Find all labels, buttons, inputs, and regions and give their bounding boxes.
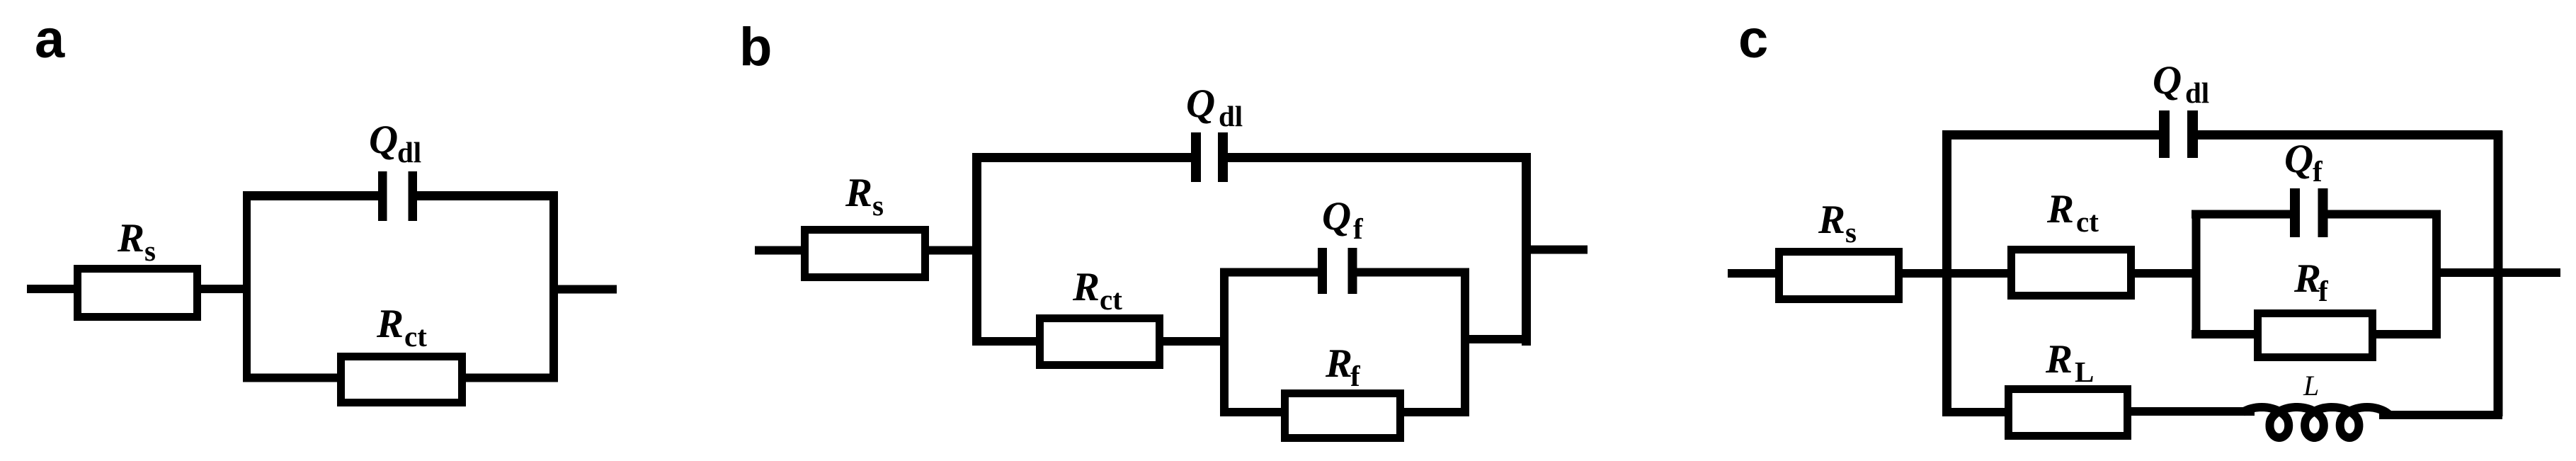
label R_s (panel a): [117, 216, 156, 267]
svg-text:ct: ct: [2076, 205, 2099, 238]
svg-text:ct: ct: [1100, 283, 1122, 316]
resistor R_s (panel a): [78, 269, 198, 317]
label R_f (panel b): [1325, 341, 1361, 392]
capacitor Q_f (panel b): [1318, 248, 1357, 294]
wire bottom branch left (panel a): [243, 374, 341, 382]
svg-text:b: b: [739, 17, 772, 77]
wire R_s to node (panel a): [197, 285, 251, 293]
node inner right vertical (panel c): [2432, 210, 2441, 339]
node outer right vertical (panel c): [2494, 131, 2503, 417]
label R_ct (panel c): [2046, 187, 2099, 238]
svg-text:s: s: [872, 189, 884, 222]
svg-text:dl: dl: [1219, 100, 1243, 132]
wire R_ct to inner node (panel b): [1159, 337, 1229, 346]
wire inner top right (panel b): [1357, 268, 1469, 277]
svg-text:R: R: [2046, 187, 2074, 232]
resistor R_s (panel c): [1779, 252, 1899, 300]
wire inner bottom left (panel b): [1220, 408, 1285, 416]
wire R_ct to inner node (panel c): [2131, 269, 2200, 278]
svg-text:ct: ct: [404, 320, 427, 353]
node left vertical (panel a): [243, 192, 251, 382]
svg-text:R: R: [2293, 256, 2321, 301]
svg-text:L: L: [2303, 370, 2319, 402]
wire top branch right (panel c): [2198, 130, 2502, 140]
svg-text:s: s: [144, 234, 156, 267]
wire right lead panel a: [549, 285, 617, 294]
resistor R_ct (panel b): [1040, 319, 1160, 365]
capacitor Q_dl (panel a): [378, 171, 417, 221]
wire R_s through node to R_ct (panel c): [1898, 269, 2012, 278]
svg-text:f: f: [2318, 275, 2329, 307]
svg-text:Q: Q: [1186, 81, 1215, 126]
svg-text:R: R: [117, 216, 144, 261]
wire inner bottom left (panel c): [2192, 330, 2258, 338]
label Q_f (panel b): [1322, 194, 1364, 245]
svg-text:L: L: [2075, 355, 2094, 388]
wire left lead panel b: [755, 246, 805, 255]
resistor R_L (panel c): [2009, 389, 2128, 436]
svg-text:R: R: [376, 302, 404, 346]
svg-text:Q: Q: [1322, 194, 1351, 239]
node outer left vertical (panel b): [972, 154, 981, 346]
capacitor Q_dl (panel b): [1191, 132, 1228, 182]
resistor R_f (panel c): [2258, 314, 2373, 358]
inductor L (panel c): [2242, 407, 2390, 438]
node outer right vertical (panel b): [1522, 154, 1531, 346]
wire R_s to node (panel b): [925, 246, 981, 255]
wire top branch right (panel b): [1228, 153, 1531, 162]
svg-text:f: f: [2313, 155, 2323, 188]
wire inner node to outer right vertical (panel b): [1461, 335, 1531, 343]
label Q_dl (panel a): [369, 118, 421, 169]
svg-text:f: f: [1350, 360, 1361, 392]
wire inner top right (panel c): [2327, 210, 2441, 219]
wire top branch right (panel a): [416, 191, 558, 200]
resistor R_s (panel b): [805, 230, 925, 278]
wire bottom branch right (panel a): [462, 374, 558, 382]
svg-text:Q: Q: [369, 118, 398, 162]
capacitor Q_dl (panel c): [2159, 110, 2198, 158]
capacitor Q_f (panel c): [2290, 188, 2328, 237]
wire middle branch to R_ct (panel b): [972, 337, 1040, 346]
wire inner top left (panel c): [2192, 210, 2291, 219]
svg-text:R: R: [1818, 198, 1845, 242]
wire bottom branch left (panel c): [1942, 408, 2010, 416]
svg-text:dl: dl: [397, 136, 421, 169]
label Q_dl (panel b): [1186, 81, 1243, 132]
wire top branch left (panel b): [972, 153, 1192, 162]
svg-text:s: s: [1845, 216, 1857, 249]
label Q_dl (panel c): [2153, 58, 2209, 109]
svg-text:Q: Q: [2153, 58, 2182, 103]
label R_ct (panel b): [1072, 265, 1122, 316]
wire inner top left (panel b): [1220, 268, 1318, 277]
label R_f (panel c): [2293, 256, 2329, 307]
node outer left vertical (panel c): [1942, 131, 1951, 417]
resistor R_ct (panel c): [2012, 250, 2131, 296]
svg-text:c: c: [1738, 9, 1768, 69]
svg-text:R: R: [1325, 341, 1352, 386]
label R_s (panel c): [1818, 198, 1857, 249]
svg-text:a: a: [35, 9, 65, 69]
resistor R_f (panel b): [1285, 394, 1401, 438]
wire inner bottom right (panel c): [2372, 330, 2441, 338]
label R_s (panel b): [845, 171, 884, 222]
label R_L (panel c): [2045, 337, 2094, 388]
svg-text:R: R: [2045, 337, 2073, 382]
node inner left vertical (panel b): [1220, 268, 1229, 417]
node inner right vertical (panel b): [1461, 268, 1469, 417]
node inner left vertical (panel c): [2192, 210, 2201, 339]
wire left lead panel a: [27, 285, 78, 293]
svg-text:f: f: [1353, 212, 1364, 245]
wire top branch left (panel c): [1942, 130, 2160, 140]
node right vertical (panel a): [549, 192, 558, 382]
svg-text:R: R: [845, 171, 872, 215]
wire left lead panel c: [1728, 269, 1779, 278]
wire R_L to inductor (panel c): [2127, 407, 2255, 416]
label R_ct (panel a): [376, 302, 427, 353]
resistor R_ct (panel a): [341, 357, 462, 403]
svg-text:R: R: [1072, 265, 1100, 309]
wire inner bottom right (panel b): [1400, 408, 1469, 416]
wire inner node to right lead (panel c): [2432, 268, 2560, 277]
wire right lead panel b: [1522, 246, 1588, 254]
wire inductor to right vertical (panel c): [2379, 411, 2502, 419]
label Q_f (panel c): [2284, 137, 2323, 188]
svg-text:Q: Q: [2284, 137, 2313, 181]
wire top branch left (panel a): [243, 191, 379, 200]
svg-text:dl: dl: [2185, 76, 2209, 109]
